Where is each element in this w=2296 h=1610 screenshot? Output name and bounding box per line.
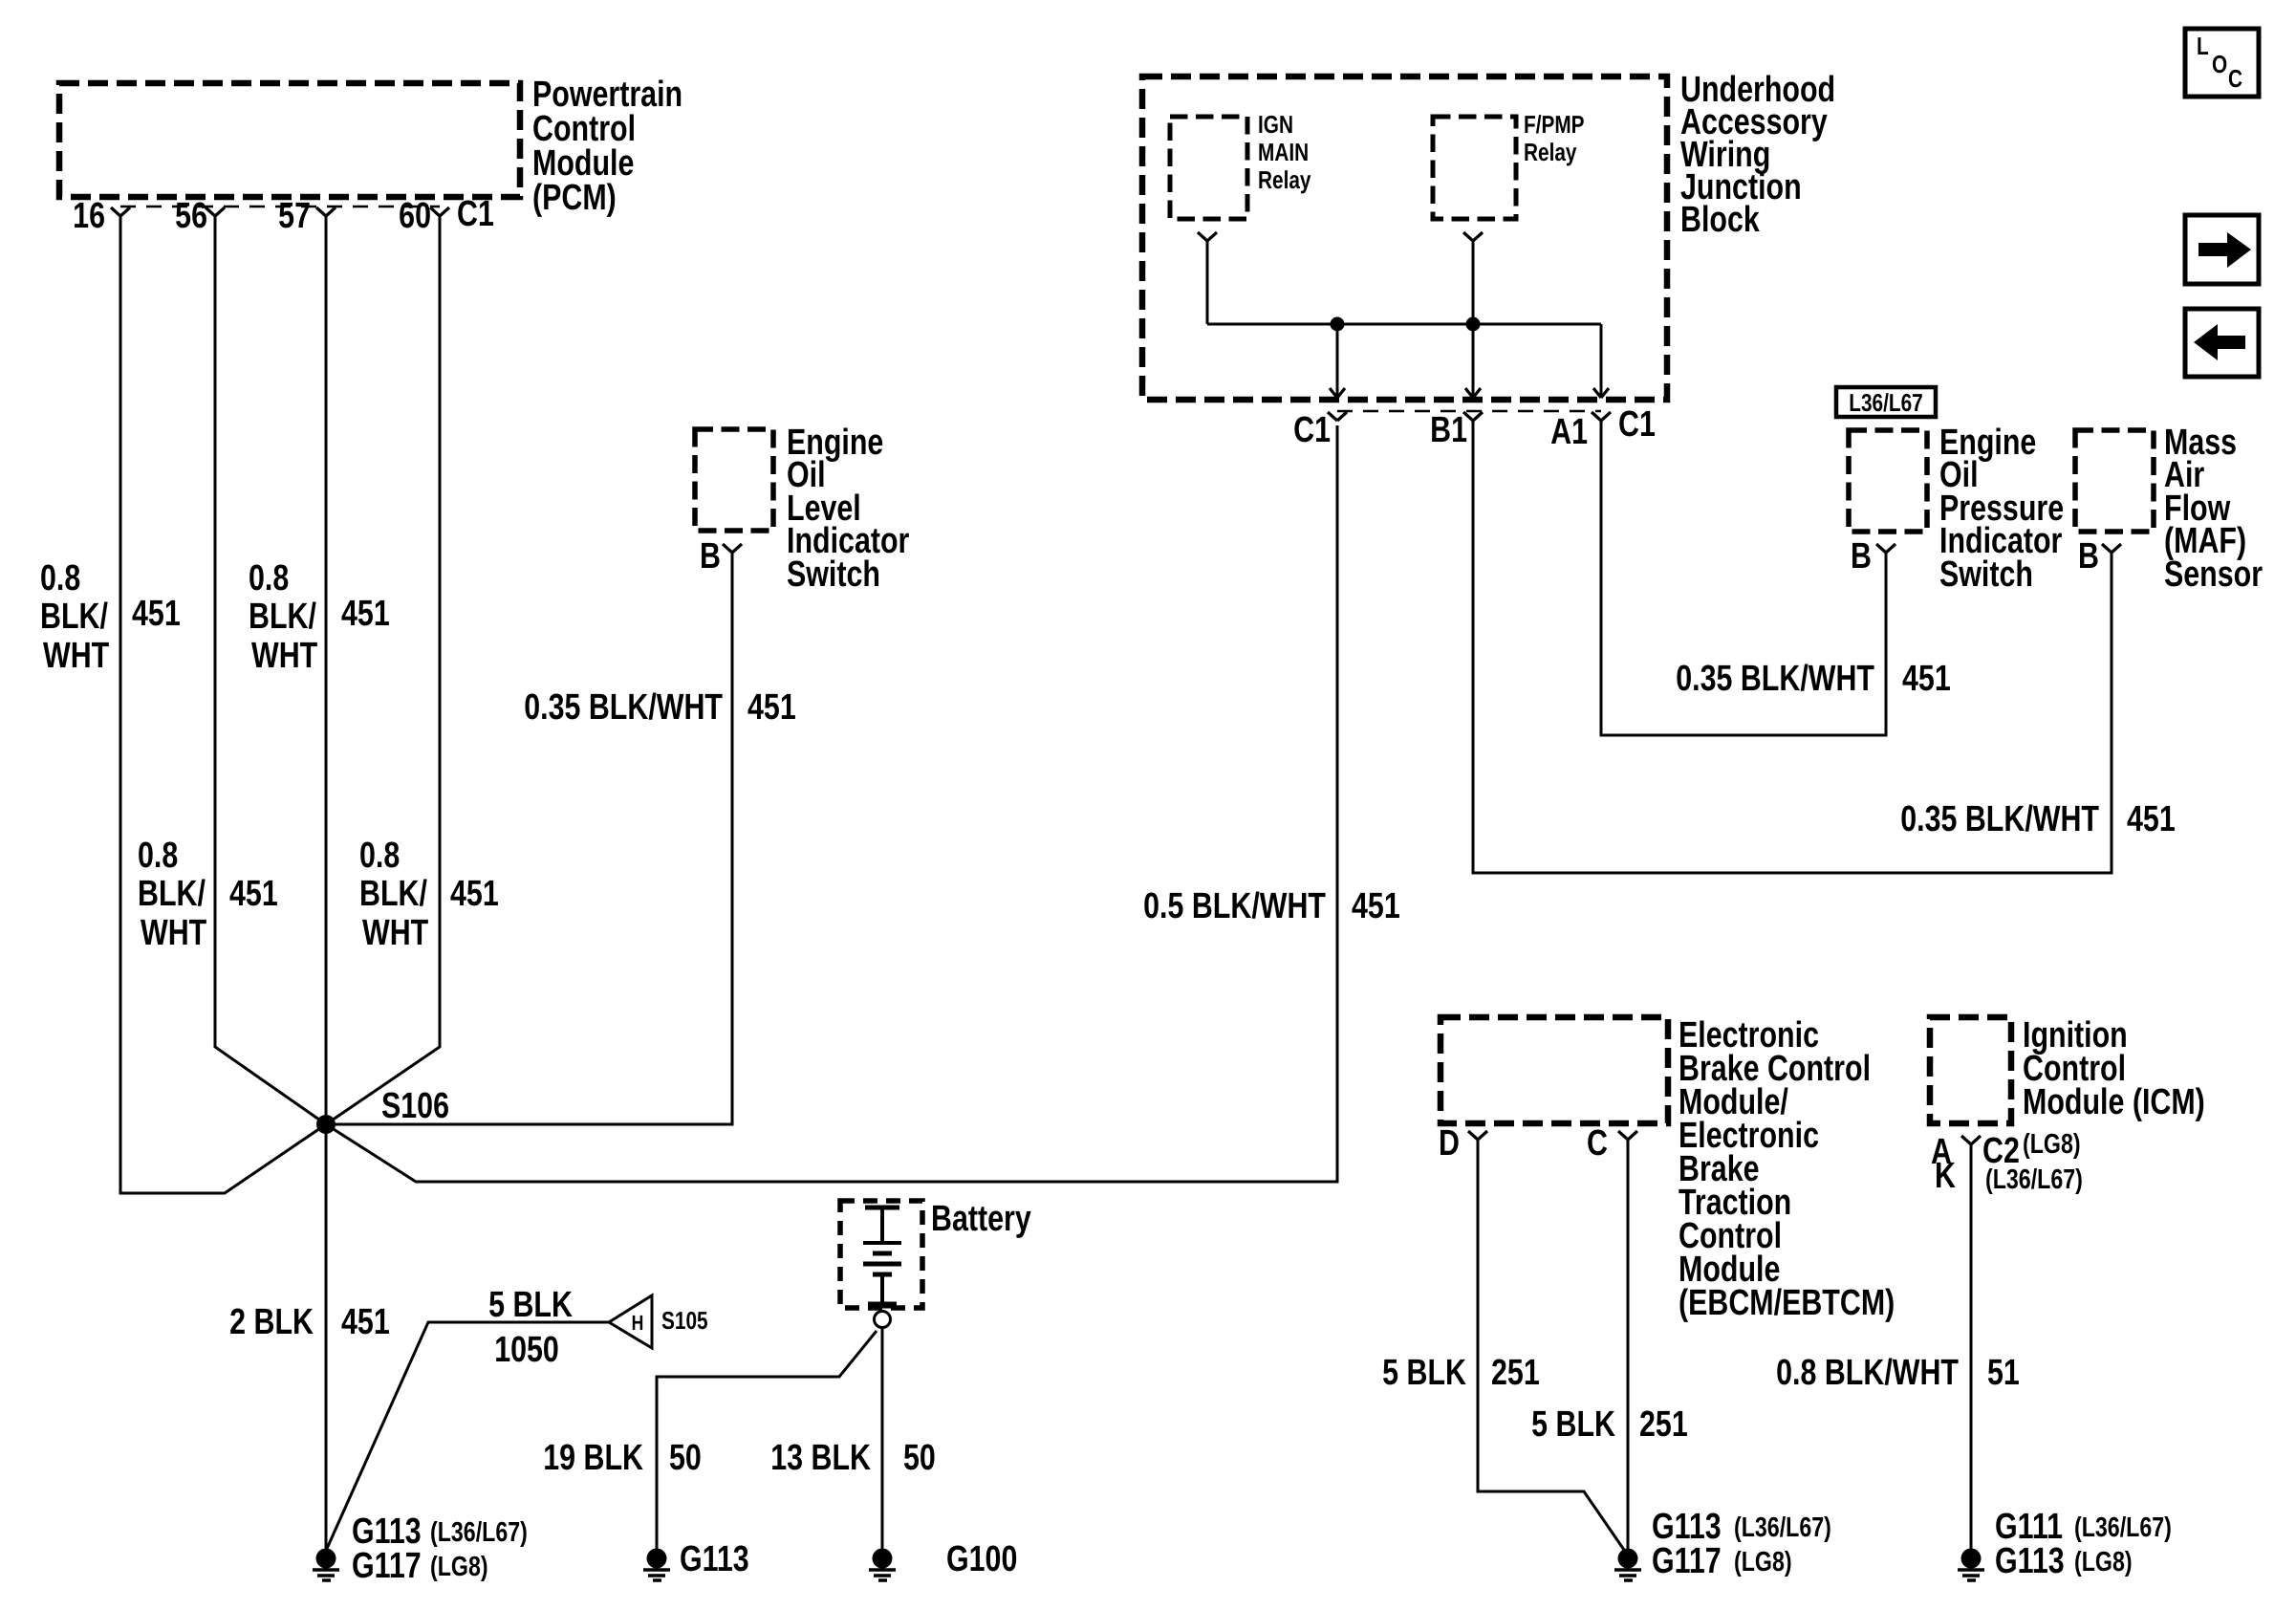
wire label 0.8 BLK/WHT (pin 16) bbox=[40, 558, 109, 676]
svg-text:0.35 BLK/WHT: 0.35 BLK/WHT bbox=[524, 687, 723, 728]
svg-text:5 BLK: 5 BLK bbox=[1531, 1404, 1615, 1445]
junction dot at B1 branch bbox=[1466, 317, 1481, 332]
svg-text:G100: G100 bbox=[946, 1539, 1017, 1579]
ICM pin A connector bbox=[1961, 1136, 1981, 1144]
svg-text:451: 451 bbox=[747, 687, 796, 728]
svg-text:451: 451 bbox=[1352, 886, 1400, 926]
svg-text:1050: 1050 bbox=[494, 1330, 559, 1370]
ground label G117 (LG8) EBCM bbox=[1652, 1541, 1792, 1581]
ground G111/G113 (ICM) bbox=[1958, 1549, 1984, 1581]
svg-text:2 BLK: 2 BLK bbox=[229, 1302, 314, 1342]
junction block connector dashed row bbox=[1337, 410, 1601, 413]
svg-text:B: B bbox=[2078, 536, 2099, 577]
svg-text:(LG8): (LG8) bbox=[2023, 1129, 2081, 1160]
underhood accessory wiring junction block box bbox=[1142, 76, 1667, 400]
svg-text:451: 451 bbox=[341, 1302, 390, 1342]
oil level switch pin B connector bbox=[723, 544, 742, 553]
svg-text:56: 56 bbox=[175, 196, 207, 236]
svg-text:WHT: WHT bbox=[251, 636, 317, 676]
svg-text:BLK/: BLK/ bbox=[40, 597, 108, 637]
svg-text:(LG8): (LG8) bbox=[2074, 1547, 2133, 1577]
wire pin 56 to S106 bbox=[215, 216, 326, 1124]
arrowhead C1 bbox=[1330, 388, 1345, 398]
terminal C1 connector bbox=[1328, 412, 1347, 421]
wire EBCM D to ground (5 BLK 251) bbox=[1478, 1140, 1626, 1553]
junction dot at C1 branch bbox=[1331, 317, 1345, 332]
svg-text:50: 50 bbox=[903, 1438, 936, 1478]
svg-text:BLK/: BLK/ bbox=[249, 597, 316, 637]
svg-text:C1: C1 bbox=[457, 194, 494, 234]
wire pin 57 to ground G113/G117 (2 BLK 451) bbox=[325, 216, 328, 1558]
svg-text:G113: G113 bbox=[1995, 1541, 2065, 1581]
svg-text:WHT: WHT bbox=[141, 913, 206, 953]
ground label G113 (LG8) ICM bbox=[1995, 1541, 2133, 1581]
svg-text:H: H bbox=[632, 1311, 644, 1335]
svg-text:0.8: 0.8 bbox=[249, 558, 289, 598]
ICM name label bbox=[2023, 1015, 2205, 1122]
svg-text:BLK/: BLK/ bbox=[138, 874, 206, 914]
EBCM name label bbox=[1679, 1015, 1895, 1323]
oil level switch name label bbox=[787, 423, 910, 595]
wire bus down to C1 bbox=[1336, 324, 1339, 398]
svg-text:251: 251 bbox=[1491, 1353, 1540, 1393]
wire F/PMP relay down to B1 bbox=[1472, 241, 1475, 398]
svg-text:60: 60 bbox=[399, 196, 431, 236]
svg-text:K: K bbox=[1935, 1156, 1956, 1196]
svg-text:451: 451 bbox=[1902, 659, 1951, 699]
ground G113/G117 (left) bbox=[313, 1549, 339, 1581]
svg-text:L36/L67: L36/L67 bbox=[1849, 388, 1922, 417]
terminal A1 connector bbox=[1592, 412, 1611, 421]
wire B1 to MAF sensor (0.35 BLK/WHT 451) bbox=[1473, 421, 2112, 873]
svg-text:0.8: 0.8 bbox=[138, 836, 178, 876]
IGN MAIN relay box bbox=[1170, 117, 1247, 219]
svg-text:(L36/L67): (L36/L67) bbox=[430, 1517, 528, 1548]
svg-text:C1: C1 bbox=[1618, 404, 1656, 445]
svg-text:Relay: Relay bbox=[1258, 165, 1311, 194]
svg-text:L: L bbox=[2197, 32, 2209, 60]
wire label 0.8 BLK/WHT (pin 57) bbox=[249, 558, 317, 676]
IGN MAIN relay label bbox=[1258, 110, 1311, 194]
svg-text:451: 451 bbox=[450, 874, 499, 914]
svg-text:0.8 BLK/WHT: 0.8 BLK/WHT bbox=[1776, 1353, 1959, 1393]
F/PMP relay box bbox=[1433, 117, 1516, 219]
pin 56 connector bbox=[206, 207, 225, 216]
wire IGN MAIN relay to ground bus bbox=[1206, 241, 1209, 324]
battery box bbox=[840, 1201, 922, 1308]
svg-text:WHT: WHT bbox=[362, 913, 428, 953]
svg-text:0.5 BLK/WHT: 0.5 BLK/WHT bbox=[1143, 886, 1326, 926]
wire battery to G113 (19 BLK 50) bbox=[657, 1331, 877, 1558]
ground label G113 (L36/L67) EBCM bbox=[1652, 1507, 1831, 1547]
svg-text:F/PMP: F/PMP bbox=[1524, 110, 1585, 139]
svg-text:19 BLK: 19 BLK bbox=[543, 1438, 643, 1478]
svg-text:16: 16 bbox=[73, 196, 105, 236]
svg-text:S106: S106 bbox=[381, 1086, 449, 1126]
svg-text:A1: A1 bbox=[1550, 412, 1588, 452]
svg-text:(LG8): (LG8) bbox=[430, 1552, 488, 1582]
oil pressure switch name label bbox=[1939, 423, 2064, 595]
wire EBCM C to ground (5 BLK 251) bbox=[1627, 1140, 1630, 1558]
pin 60 connector bbox=[430, 207, 449, 216]
wire A1 to engine oil pressure switch (0.35 BLK/WHT 451) bbox=[1601, 421, 1886, 735]
svg-text:Relay: Relay bbox=[1524, 138, 1577, 166]
svg-text:O: O bbox=[2212, 50, 2227, 78]
svg-text:Switch: Switch bbox=[787, 555, 880, 595]
ground bus inside junction block bbox=[1207, 323, 1601, 326]
svg-text:(LG8): (LG8) bbox=[1734, 1547, 1792, 1577]
IGN MAIN relay pin connector bbox=[1198, 232, 1217, 241]
svg-text:0.8: 0.8 bbox=[40, 558, 80, 598]
svg-text:S105: S105 bbox=[661, 1306, 708, 1335]
L36/L67 engine tag box bbox=[1836, 387, 1936, 417]
svg-text:G117: G117 bbox=[352, 1546, 422, 1586]
wire S106 to engine oil level indicator switch bbox=[326, 553, 732, 1124]
wire pin 16 to S106 bbox=[120, 216, 326, 1193]
svg-text:Battery: Battery bbox=[931, 1199, 1031, 1239]
wire label 0.8 BLK/WHT (pin 60) bbox=[359, 836, 428, 953]
oil pressure pin B connector bbox=[1876, 544, 1895, 553]
svg-text:(L36/L67): (L36/L67) bbox=[1734, 1512, 1831, 1543]
svg-text:(L36/L67): (L36/L67) bbox=[1985, 1164, 2083, 1195]
svg-text:C: C bbox=[2228, 64, 2242, 93]
svg-text:G117: G117 bbox=[1652, 1541, 1722, 1581]
battery negative terminal circle bbox=[875, 1312, 891, 1328]
wire battery to G100 (13 BLK 50) bbox=[881, 1328, 884, 1558]
svg-text:57: 57 bbox=[278, 196, 311, 236]
wire S106 to PCM C1 (0.5 BLK/WHT 451) bbox=[326, 425, 1337, 1182]
svg-text:MAIN: MAIN bbox=[1258, 138, 1309, 166]
svg-text:Block: Block bbox=[1680, 200, 1760, 240]
engine oil pressure indicator switch box bbox=[1849, 430, 1927, 532]
svg-text:Switch: Switch bbox=[1939, 555, 2033, 595]
svg-text:5 BLK: 5 BLK bbox=[488, 1285, 573, 1325]
ground label G113 (L36/L67) left bbox=[352, 1512, 528, 1552]
terminal B1 connector bbox=[1463, 412, 1483, 421]
svg-text:51: 51 bbox=[1987, 1353, 2020, 1393]
EBCM pin D connector bbox=[1468, 1131, 1487, 1140]
svg-text:451: 451 bbox=[341, 594, 390, 634]
engine oil level indicator switch box bbox=[695, 429, 773, 531]
F/PMP relay pin connector bbox=[1463, 232, 1483, 241]
MAF pin B connector bbox=[2102, 544, 2121, 553]
svg-text:5 BLK: 5 BLK bbox=[1382, 1353, 1466, 1393]
ground label G111 (L36/L67) ICM bbox=[1995, 1507, 2172, 1547]
ground G113 (center) bbox=[643, 1549, 670, 1581]
PCM connector C1 dashed row bbox=[120, 206, 440, 208]
F/PMP relay label bbox=[1524, 110, 1585, 166]
svg-text:Sensor: Sensor bbox=[2164, 555, 2263, 595]
Powertrain Control Module (PCM) box bbox=[59, 83, 520, 197]
svg-text:Module (ICM): Module (ICM) bbox=[2023, 1082, 2205, 1122]
mass air flow MAF sensor box bbox=[2075, 430, 2154, 532]
previous page arrow box (left arrow) bbox=[2185, 309, 2259, 377]
svg-text:B: B bbox=[700, 536, 721, 577]
pin 57 connector bbox=[316, 207, 336, 216]
EBCM pin C connector bbox=[1618, 1131, 1637, 1140]
svg-text:13 BLK: 13 BLK bbox=[770, 1438, 871, 1478]
svg-text:0.35 BLK/WHT: 0.35 BLK/WHT bbox=[1900, 799, 2099, 839]
svg-text:50: 50 bbox=[669, 1438, 702, 1478]
wire label 0.8 BLK/WHT (pin 56) bbox=[138, 836, 206, 953]
svg-text:0.35 BLK/WHT: 0.35 BLK/WHT bbox=[1676, 659, 1874, 699]
ground G100 bbox=[869, 1549, 896, 1581]
svg-text:451: 451 bbox=[229, 874, 278, 914]
EBCM/EBTCM box bbox=[1440, 1017, 1668, 1123]
svg-text:IGN: IGN bbox=[1258, 110, 1293, 139]
ignition control module ICM box bbox=[1930, 1017, 2011, 1123]
splice S105 triangle bbox=[609, 1295, 652, 1348]
svg-text:B: B bbox=[1851, 536, 1872, 577]
arrowhead A1 bbox=[1593, 388, 1609, 398]
svg-text:D: D bbox=[1439, 1123, 1460, 1164]
arrowhead B1 bbox=[1465, 388, 1481, 398]
svg-text:BLK/: BLK/ bbox=[359, 874, 427, 914]
svg-text:(EBCM/EBTCM): (EBCM/EBTCM) bbox=[1679, 1283, 1895, 1323]
svg-text:(PCM): (PCM) bbox=[532, 178, 617, 218]
wire bus down to A1 bbox=[1600, 324, 1603, 398]
svg-text:WHT: WHT bbox=[43, 636, 109, 676]
svg-text:G113: G113 bbox=[680, 1539, 749, 1579]
junction block name label bbox=[1680, 70, 1835, 240]
ground G113/G117 (EBCM) bbox=[1614, 1549, 1641, 1581]
PCM name label bbox=[532, 75, 682, 218]
MAF sensor name label bbox=[2164, 423, 2263, 595]
battery cell symbol bbox=[863, 1207, 901, 1305]
svg-text:C: C bbox=[1587, 1123, 1608, 1164]
pin 16 connector bbox=[111, 207, 130, 216]
svg-text:B1: B1 bbox=[1430, 410, 1467, 450]
svg-text:(L36/L67): (L36/L67) bbox=[2074, 1512, 2172, 1543]
wire S106 to S105 (5 BLK 1050) bbox=[326, 1322, 609, 1551]
wire pin 60 to S106 bbox=[326, 216, 440, 1124]
LOC legend box bbox=[2185, 29, 2259, 97]
svg-text:C1: C1 bbox=[1293, 410, 1331, 450]
svg-text:451: 451 bbox=[132, 594, 181, 634]
ground label G117 (LG8) left bbox=[352, 1546, 488, 1586]
svg-text:451: 451 bbox=[2127, 799, 2176, 839]
splice S106 bbox=[316, 1115, 336, 1134]
next page arrow box (right arrow) bbox=[2185, 215, 2259, 284]
svg-text:251: 251 bbox=[1639, 1404, 1688, 1445]
svg-text:0.8: 0.8 bbox=[359, 836, 400, 876]
wire ICM to ground (0.8 BLK/WHT 51) bbox=[1970, 1144, 1973, 1558]
